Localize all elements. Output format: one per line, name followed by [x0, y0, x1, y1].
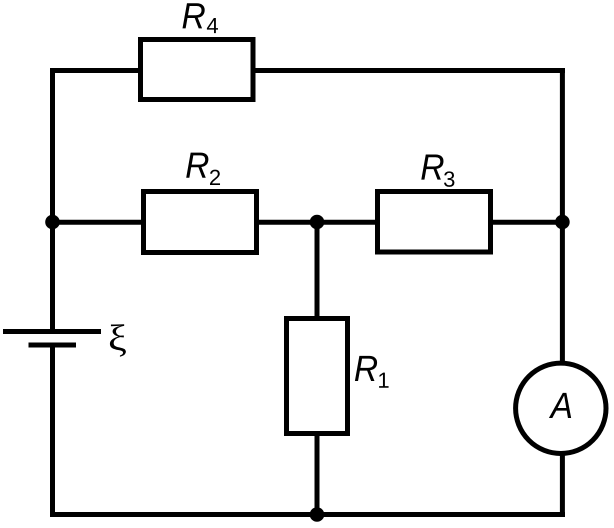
resistor R1	[287, 319, 348, 434]
label A (ammeter)	[549, 393, 571, 418]
wire: bottom horizontal	[50, 512, 565, 517]
label R3: subscript 3	[444, 171, 454, 187]
node: middle junction dot	[310, 215, 325, 230]
wire: middle vertical (node to R1 to bottom node)	[315, 222, 320, 517]
resistor R3	[378, 192, 491, 253]
node: right junction dot	[555, 215, 570, 230]
label R3: letter R	[421, 154, 443, 179]
wire: left vertical lower segment (battery to bottom wire)	[50, 345, 55, 517]
ammeter A: circle body	[516, 363, 606, 453]
label R1: subscript 1	[379, 373, 388, 388]
label xi (EMF source)	[110, 324, 126, 356]
node: left junction dot	[45, 215, 60, 230]
wire: top horizontal	[50, 68, 565, 73]
resistor R2	[144, 192, 257, 253]
label R4: subscript 4	[207, 18, 218, 33]
wire: middle horizontal	[50, 220, 565, 225]
battery cell: short plate (negative)	[29, 343, 77, 348]
resistor R4	[141, 40, 254, 100]
label R1: letter R	[355, 356, 377, 381]
battery cell: long plate (positive)	[3, 329, 101, 334]
label R2: letter R	[186, 153, 208, 178]
wire: right vertical	[560, 68, 565, 517]
wire: left vertical upper segment (top wire to battery)	[50, 68, 55, 332]
label R2: subscript 2	[210, 170, 220, 185]
label R4: letter R	[183, 3, 205, 28]
node: bottom junction dot	[310, 507, 325, 522]
